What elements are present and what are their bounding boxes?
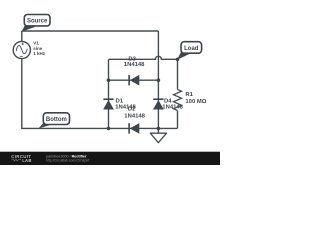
voltage source V1 [13, 41, 30, 58]
svg-text:LAB: LAB [22, 158, 32, 163]
label D3 [124, 57, 145, 69]
svg-text:Load: Load [184, 46, 199, 52]
wire R1 branch top [177, 59, 179, 89]
node junction bottom right [157, 127, 161, 131]
wire left rail lower [22, 59, 178, 129]
svg-text:sine: sine [33, 46, 43, 51]
svg-text:1N4148: 1N4148 [124, 113, 145, 119]
svg-text:D1: D1 [116, 98, 124, 104]
wire horizontal load row with hop over vertical wire [109, 56, 178, 59]
svg-text:V1: V1 [33, 40, 39, 45]
diode D4 symbol [153, 99, 164, 109]
svg-text:Source: Source [27, 18, 48, 24]
resistor R1 [174, 90, 182, 111]
wire R1 branch bottom [177, 111, 179, 129]
diode D3 symbol [129, 75, 139, 86]
svg-text:D4: D4 [164, 98, 172, 104]
wire horizontal D3 row [109, 79, 159, 81]
svg-text:Bottom: Bottom [46, 117, 67, 123]
wire left rail upper stub [21, 31, 23, 41]
label D4 [162, 98, 183, 110]
svg-text:R1: R1 [185, 92, 193, 98]
svg-text:100 MΩ: 100 MΩ [185, 99, 206, 105]
label R1 [185, 92, 206, 105]
footer bar [0, 152, 220, 165]
node junction D3 left [107, 78, 111, 82]
wire vertical mid-left [108, 59, 110, 128]
wire top rail [22, 30, 159, 32]
node junction load [176, 58, 180, 62]
label V1 value [33, 40, 46, 56]
callout Source [22, 15, 50, 32]
svg-text:http://circuitlab.com/c57atpkf: http://circuitlab.com/c57atpkf [46, 159, 89, 163]
callout Load [177, 42, 201, 60]
callout Bottom [39, 113, 70, 129]
footer logo CIRCUIT LAB [11, 154, 31, 163]
label D1 [115, 98, 136, 110]
svg-text:D2: D2 [128, 106, 136, 112]
label D2 [124, 106, 145, 119]
svg-text:1N4148: 1N4148 [124, 62, 145, 68]
ground [150, 128, 166, 142]
svg-text:1 kHz: 1 kHz [33, 51, 46, 56]
node junction D3 right [157, 78, 161, 82]
wire vertical right (top rail down through D4) [157, 31, 159, 128]
node junction bottom mid [107, 127, 111, 131]
diode D2 symbol [129, 123, 139, 134]
diode D1 symbol [103, 99, 114, 109]
